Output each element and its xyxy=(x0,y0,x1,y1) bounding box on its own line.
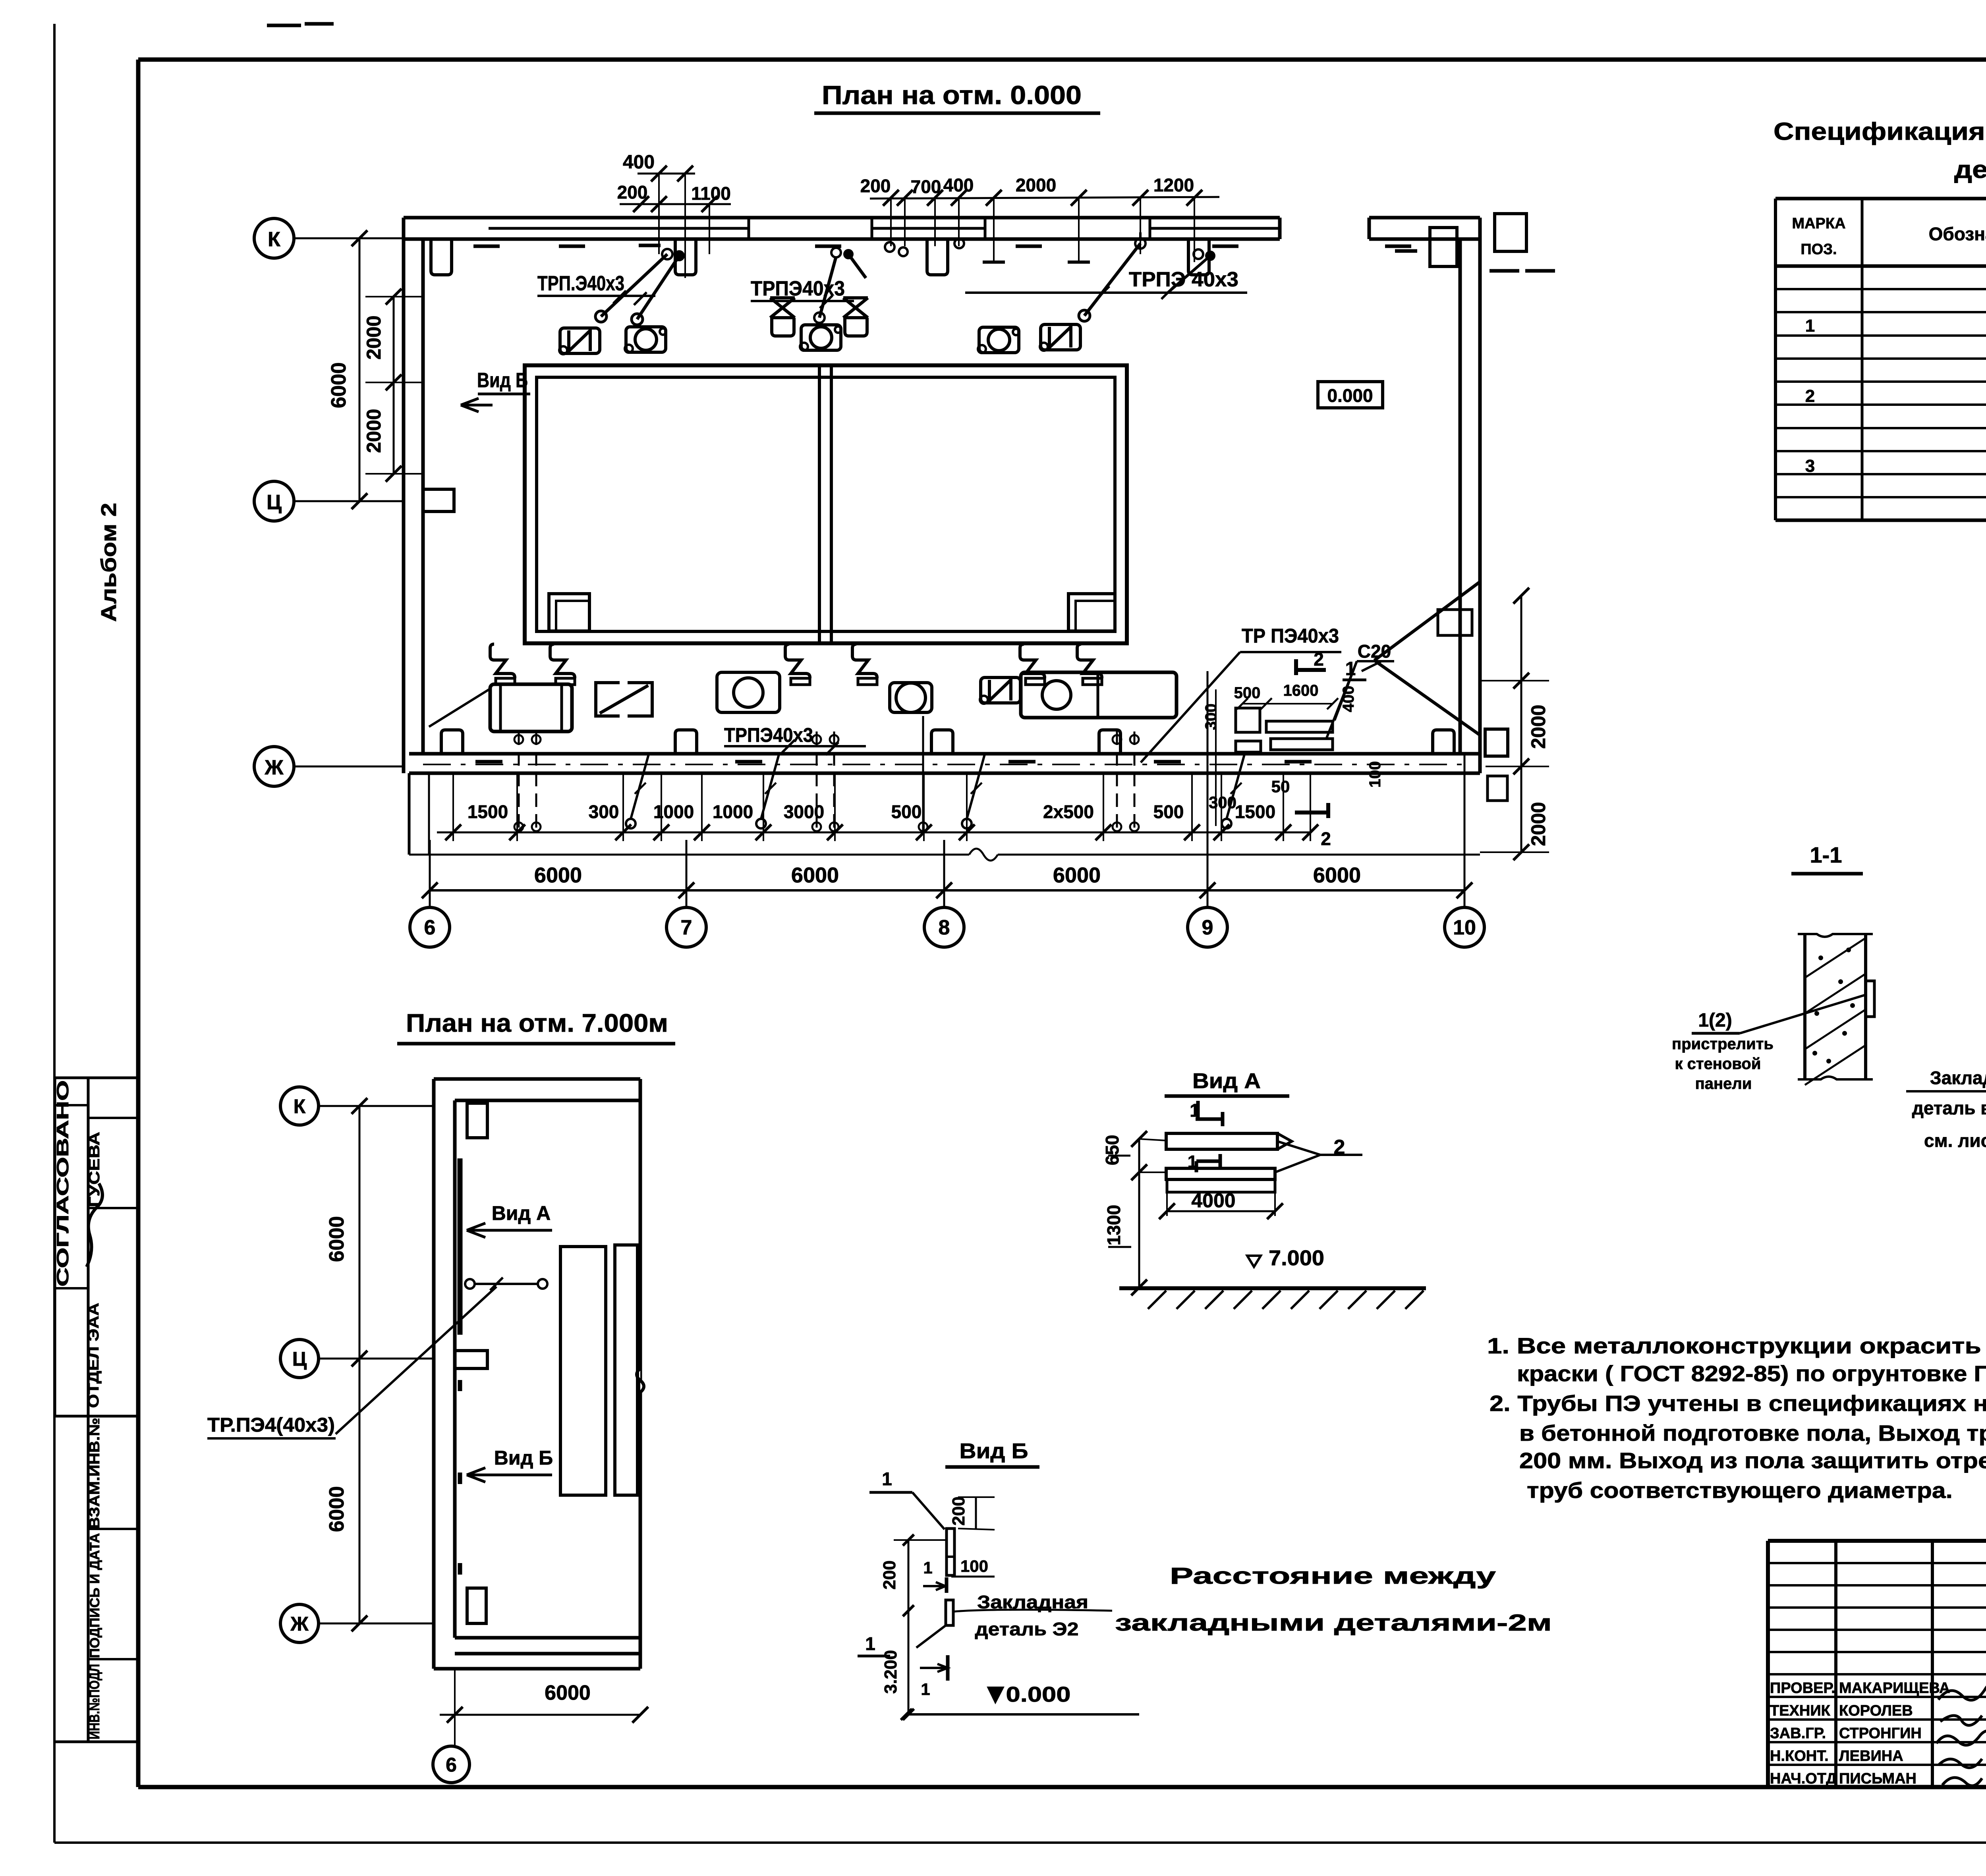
svg-text:6000: 6000 xyxy=(534,863,582,887)
svg-text:1000: 1000 xyxy=(713,801,753,822)
svg-text:1: 1 xyxy=(882,1469,892,1489)
svg-text:4000: 4000 xyxy=(1191,1189,1235,1212)
svg-text:1500: 1500 xyxy=(1235,801,1275,822)
svg-text:700: 700 xyxy=(911,176,941,197)
svg-text:6000: 6000 xyxy=(325,1216,348,1262)
svg-text:400: 400 xyxy=(943,175,974,195)
svg-text:10: 10 xyxy=(1453,916,1476,939)
svg-text:ВЗАМ.ИНВ.№: ВЗАМ.ИНВ.№ xyxy=(86,1418,102,1529)
svg-text:МАКАРИЩЕВА: МАКАРИЩЕВА xyxy=(1839,1680,1950,1697)
svg-text:2: 2 xyxy=(1314,649,1324,670)
svg-text:2. Трубы ПЭ учтены в специф: 2. Трубы ПЭ учтены в спецификациях на ли… xyxy=(1489,1391,1986,1416)
svg-text:0.000: 0.000 xyxy=(1327,385,1373,406)
svg-text:6000: 6000 xyxy=(1313,863,1361,887)
svg-text:0.000: 0.000 xyxy=(1006,1683,1071,1706)
svg-text:Закладная: Закладная xyxy=(1930,1067,1986,1088)
svg-text:100: 100 xyxy=(1366,761,1384,788)
svg-text:ПОДПИСЬ И ДАТА: ПОДПИСЬ И ДАТА xyxy=(87,1533,102,1658)
svg-text:ТРП.Э40х3: ТРП.Э40х3 xyxy=(537,272,624,295)
svg-text:Ж: Ж xyxy=(290,1613,309,1635)
svg-text:3000: 3000 xyxy=(784,801,824,822)
svg-text:2: 2 xyxy=(1321,828,1331,849)
svg-text:Ц: Ц xyxy=(267,491,282,514)
svg-text:К: К xyxy=(268,228,280,251)
svg-text:2000: 2000 xyxy=(1016,175,1056,195)
svg-text:200: 200 xyxy=(880,1560,899,1589)
svg-text:400: 400 xyxy=(623,152,655,173)
svg-text:1. Все металлоконструкции ок: 1. Все металлоконструкции окрасить двумя… xyxy=(1487,1333,1986,1358)
svg-text:6: 6 xyxy=(424,916,436,939)
svg-text:1-1: 1-1 xyxy=(1810,842,1842,867)
svg-text:ЗАВ.ГР.: ЗАВ.ГР. xyxy=(1770,1725,1826,1742)
svg-text:200: 200 xyxy=(949,1496,968,1525)
svg-text:ОТДЕЛ ЭАА: ОТДЕЛ ЭАА xyxy=(85,1303,102,1408)
svg-text:закладными деталями-2м: закладными деталями-2м xyxy=(1115,1610,1552,1636)
svg-text:пристрелить: пристрелить xyxy=(1672,1035,1773,1053)
svg-text:200: 200 xyxy=(617,182,648,203)
svg-text:деталь в полу: деталь в полу xyxy=(1912,1098,1986,1118)
svg-text:Расстояние между: Расстояние между xyxy=(1170,1563,1496,1589)
svg-text:1000: 1000 xyxy=(653,801,694,822)
svg-text:Вид Б: Вид Б xyxy=(477,369,528,392)
svg-text:Вид А: Вид А xyxy=(492,1202,551,1224)
svg-text:2000: 2000 xyxy=(363,315,385,359)
svg-text:1300: 1300 xyxy=(1103,1205,1124,1245)
svg-text:Обозначение: Обозначение xyxy=(1929,224,1986,244)
svg-text:500: 500 xyxy=(891,801,922,822)
svg-text:Н.КОНТ.: Н.КОНТ. xyxy=(1770,1748,1829,1764)
svg-text:ГУСЕВА: ГУСЕВА xyxy=(86,1132,103,1207)
svg-text:ТР ПЭ40х3: ТР ПЭ40х3 xyxy=(1242,625,1339,647)
svg-text:50: 50 xyxy=(1271,777,1290,796)
svg-text:ПРОВЕР.: ПРОВЕР. xyxy=(1770,1680,1835,1697)
svg-text:6000: 6000 xyxy=(327,362,350,408)
svg-text:1(2): 1(2) xyxy=(1698,1010,1732,1031)
svg-text:2х500: 2х500 xyxy=(1043,801,1094,822)
svg-text:1200: 1200 xyxy=(1153,175,1194,195)
svg-text:Вид А: Вид А xyxy=(1192,1069,1261,1093)
svg-text:2000: 2000 xyxy=(1527,802,1549,846)
svg-text:НАЧ.ОТД: НАЧ.ОТД xyxy=(1770,1770,1837,1787)
svg-text:С20: С20 xyxy=(1358,641,1391,662)
svg-text:300: 300 xyxy=(1202,704,1220,730)
svg-text:1600: 1600 xyxy=(1283,682,1319,699)
svg-text:ТР.ПЭ4(40х3): ТР.ПЭ4(40х3) xyxy=(207,1414,335,1436)
svg-text:см. лист 9.: см. лист 9. xyxy=(1924,1130,1986,1151)
svg-text:1: 1 xyxy=(865,1633,875,1654)
svg-text:Вид Б: Вид Б xyxy=(494,1447,553,1469)
svg-text:Вид Б: Вид Б xyxy=(960,1439,1028,1463)
svg-text:100: 100 xyxy=(960,1557,988,1575)
svg-text:СТРОНГИН: СТРОНГИН xyxy=(1839,1725,1922,1742)
svg-text:ТЕХНИК: ТЕХНИК xyxy=(1770,1702,1831,1719)
svg-text:К: К xyxy=(294,1095,306,1117)
svg-text:краски ( ГОСТ 8292-85) по огру: краски ( ГОСТ 8292-85) по огрунтовке ГФ-… xyxy=(1517,1361,1986,1386)
svg-text:6000: 6000 xyxy=(325,1486,348,1532)
svg-text:1: 1 xyxy=(921,1680,930,1698)
svg-text:2000: 2000 xyxy=(1527,704,1549,749)
svg-text:ТРПЭ40х3: ТРПЭ40х3 xyxy=(724,724,813,746)
svg-text:к стеновой: к стеновой xyxy=(1675,1055,1761,1073)
svg-text:9: 9 xyxy=(1202,916,1213,939)
svg-text:СОГЛАСОВАНО: СОГЛАСОВАНО xyxy=(53,1080,72,1287)
svg-text:Ц: Ц xyxy=(292,1348,307,1370)
svg-text:труб соответствующего диамет: труб соответствующего диаметра. xyxy=(1527,1478,1953,1503)
svg-text:1: 1 xyxy=(923,1558,932,1577)
svg-text:в бетонной подготовке пола,: в бетонной подготовке пола, Выход труб н… xyxy=(1519,1421,1986,1446)
svg-text:1500: 1500 xyxy=(468,801,508,822)
svg-text:6000: 6000 xyxy=(545,1681,591,1704)
svg-text:МАРКА: МАРКА xyxy=(1792,215,1845,232)
svg-text:КОРОЛЕВ: КОРОЛЕВ xyxy=(1839,1702,1913,1719)
svg-text:650: 650 xyxy=(1102,1135,1122,1166)
svg-text:6: 6 xyxy=(446,1754,457,1776)
svg-text:ЛЕВИНА: ЛЕВИНА xyxy=(1839,1748,1903,1764)
svg-text:200: 200 xyxy=(860,176,891,196)
svg-text:7.000: 7.000 xyxy=(1269,1246,1324,1270)
svg-text:деталей в стенах: деталей в стенах xyxy=(1954,156,1986,183)
svg-text:2000: 2000 xyxy=(363,409,385,453)
svg-text:7: 7 xyxy=(681,916,692,939)
svg-text:6000: 6000 xyxy=(791,863,839,887)
svg-text:деталь Э2: деталь Э2 xyxy=(975,1619,1079,1639)
svg-text:400: 400 xyxy=(1340,686,1357,712)
svg-text:2: 2 xyxy=(1805,386,1815,406)
svg-text:6000: 6000 xyxy=(1053,863,1101,887)
svg-text:200 мм. Выход из пола защити: 200 мм. Выход из пола защитить отрезками… xyxy=(1519,1448,1986,1473)
svg-text:8: 8 xyxy=(939,916,950,939)
svg-text:Ж: Ж xyxy=(265,756,284,779)
svg-text:ПИСЬМАН: ПИСЬМАН xyxy=(1839,1770,1916,1787)
svg-text:ИНВ.№ПОДЛ: ИНВ.№ПОДЛ xyxy=(86,1664,102,1739)
svg-text:500: 500 xyxy=(1153,801,1184,822)
svg-text:3: 3 xyxy=(1805,456,1815,476)
svg-text:панели: панели xyxy=(1695,1075,1752,1092)
svg-text:План на отм. 0.000: План на отм. 0.000 xyxy=(822,80,1082,110)
svg-text:300: 300 xyxy=(589,801,619,822)
svg-text:Альбом 2: Альбом 2 xyxy=(97,503,121,622)
svg-text:ТРПЭ 40х3: ТРПЭ 40х3 xyxy=(1129,268,1238,291)
svg-text:ПОЗ.: ПОЗ. xyxy=(1801,241,1837,258)
svg-text:Спецификация к схеме распо: Спецификация к схеме расположения xyxy=(1773,118,1986,145)
svg-text:1: 1 xyxy=(1805,316,1815,336)
svg-text:План на отм. 7.000м: План на отм. 7.000м xyxy=(406,1009,668,1037)
svg-text:2: 2 xyxy=(1334,1136,1345,1159)
